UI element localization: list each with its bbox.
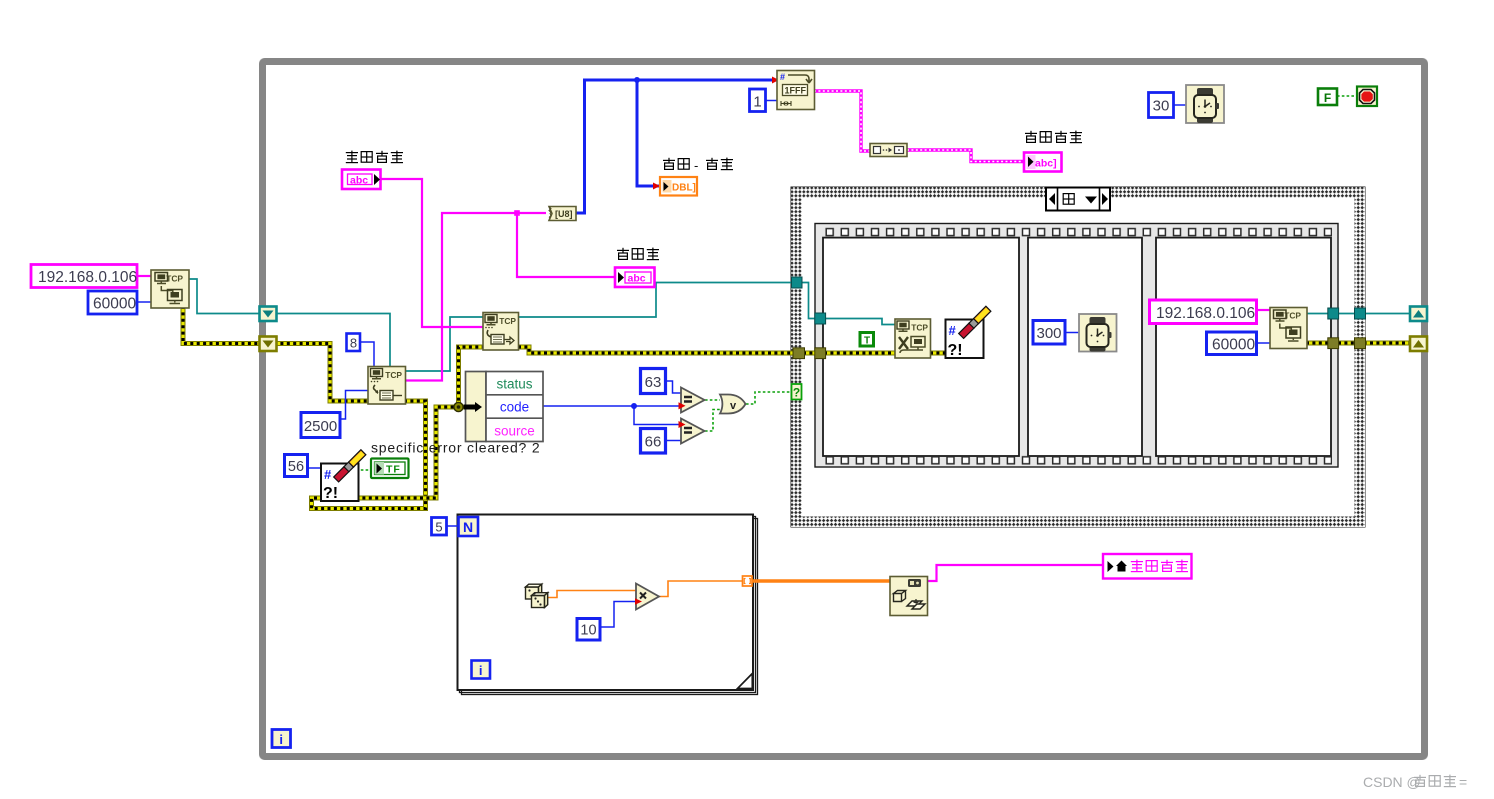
svg-text:2500: 2500 [304,418,337,435]
components layer 3 [432,300,1468,790]
stop button terminal [1357,87,1377,107]
numeric constant 63 [641,369,666,394]
while loop border [260,59,1427,759]
numeric constant 1 [750,89,766,112]
svg-text:#: # [949,323,957,338]
unbundle by name node (status/code/source) [464,372,543,442]
svg-text:300: 300 [1036,325,1061,342]
svg-text:[U8]: [U8] [555,209,573,219]
numeric constant 56 [285,455,308,477]
wire: blue scalar 1 constant to hex node [766,100,777,102]
string indicator (abc) [615,268,655,288]
numeric constant 10 [577,619,600,641]
Flatten To String node [890,577,928,616]
wire: blue 5 to For loop N [447,525,460,527]
wire: error cluster TCP Open 2 out to sequence right tunnel, case tunnel, right shift register [1306,341,1412,346]
svg-text:60000: 60000 [93,296,136,313]
wire: orange multiply out to loop tunnel [658,581,742,597]
wire: teal TCP Open 2 out to tunnels and right shift register [1306,313,1412,315]
wire: error cluster TCP Write out to case structure left tunnel [518,347,797,353]
svg-text:-: - [694,158,698,173]
wire: byte array blue from String-to-Byte-Array up and right to hex node [576,80,777,213]
wire: error cluster from TCP Open (left) down to left shift register [183,306,262,344]
TCP Read node [368,367,406,405]
array-numeric indicator [DBL] [660,177,697,196]
left shift register (teal, down arrow) [260,307,277,322]
wire: blue scalar 300 to wait node 2 [1065,332,1079,334]
svg-text:66: 66 [645,434,662,451]
random number dice node [526,584,548,607]
boolean indicator TF (specific error cleared? 2) [371,459,409,479]
wire: error cluster sequence tunnel to TCP Close [824,351,895,356]
svg-text:i: i [279,732,283,747]
tunnel: teal on sequence left border [815,313,826,324]
boolean constant F [1318,89,1337,106]
for loop output tunnel (array) [743,576,753,586]
svg-text:1: 1 [753,94,761,111]
right shift register (error, up arrow) [1410,337,1427,352]
coercion dot red at hex node input [772,77,779,84]
wire: error cluster from left shift register to TCP Read error in [274,344,368,402]
svg-text:F: F [1324,91,1331,105]
tunnel: teal on case right border [1355,308,1366,319]
wire: orange array from For loop tunnel to Flatten To String [750,579,890,582]
svg-text:8: 8 [350,336,357,351]
svg-text:192.168.0.106: 192.168.0.106 [1156,305,1255,322]
svg-text:T: T [864,336,870,347]
numeric constant 5 (for loop) [432,518,447,536]
svg-text:63: 63 [645,374,662,391]
boolean constant T (frame 1) [859,331,876,348]
tunnel: teal on case left border [792,277,803,288]
send-data string control label [346,151,403,163]
svg-text:code: code [500,400,529,415]
svg-text:DBL]: DBL] [672,183,696,194]
String To Byte Array node [U8] [549,207,576,221]
svg-text:TCP: TCP [911,323,928,333]
wire: string pink from send-data control down to TCP Write input [380,179,483,327]
wire: teal inside case from tunnel down to sequence tunnel [801,283,820,319]
svg-text:abc]: abc] [1035,158,1057,170]
coercion dot red at multiply input [635,598,642,605]
svg-text:TCP: TCP [1284,311,1301,321]
wire: blue scalar 30 to wait node [1174,104,1186,106]
wire: orange dice to multiply [548,591,636,598]
for loop frame with stacked shadow [458,515,758,695]
svg-text:30: 30 [1153,98,1170,115]
wire: blue branch down to array-numeric indicator [637,80,660,186]
wire: teal sequence tunnel to TCP Close [824,319,895,325]
right shift register (teal, up arrow) [1410,307,1427,322]
receive-data indicator label [1025,131,1082,143]
TCP Write node [483,313,519,351]
flat sequence structure (film strip) [815,224,1338,468]
Or gate node [720,395,746,414]
Clear Errors VI 2 (frame 1) [946,306,991,359]
svg-text:192.168.0.106: 192.168.0.106 [38,269,137,286]
wire: blue scalar 60000 to TCP Open (left) [138,301,151,303]
svg-text:#: # [780,72,785,82]
numeric constant 60000 (frame 3) [1207,332,1257,355]
wire: string pink TCP Read data out up to String-to-Byte-Array and string indicator [404,213,546,381]
numeric constant 300 (frame 2) [1033,321,1065,345]
svg-text:status: status [496,377,532,392]
svg-text:5: 5 [435,520,442,535]
wire: blue scalar 60000 #2 to TCP Open 2 [1257,342,1270,344]
equals node 1 [681,388,705,413]
nodes layer [260,277,1428,748]
svg-text:1FFF: 1FFF [785,86,807,96]
wire: TCP connection refnum teal, TCP Open to left shift register [189,279,262,314]
tunnel: error on sequence right border [1328,338,1339,349]
wire: string pink Flatten To String to send-data local variable [927,565,1103,581]
case selector label (true) [1046,188,1110,211]
tunnel: error on case right border [1355,338,1366,349]
receive-data indicator [abc] [1024,153,1062,172]
tunnel: case selector input question mark [792,384,802,400]
components layer 2 [285,313,746,503]
svg-text:TCP: TCP [166,274,183,284]
watermark CSDN [1363,774,1467,790]
svg-text:56: 56 [288,459,304,475]
TCP Open Connection node (frame 3) [1270,308,1307,349]
Number To Hex String node (1FFF) [777,71,815,110]
components layer [31,71,1377,315]
for loop iteration terminal i [472,661,491,679]
wire: pink squiggle IP constant 2 to TCP Open 2 (frame 3) [1257,309,1270,311]
svg-text:60000: 60000 [1212,337,1255,354]
wire: blue 56 to Clear Errors 1 [308,467,321,469]
string indicator label (zifuchuan) [617,248,659,260]
numeric constant 66 [641,429,666,454]
svg-text:TF: TF [386,464,401,476]
equals node 2 [681,419,705,444]
wire: error cluster case tunnel to sequence tunnel [803,351,820,356]
case structure border (checkered band) [791,187,1365,527]
TCP Close Connection node (frame 1) [895,319,931,358]
wire: error cluster TCP Read out, loop down to Clear Errors 1 input [312,401,426,509]
numeric constant 8 [347,334,361,352]
numeric constant 30 [1149,93,1174,118]
svg-text:=: = [1459,774,1467,790]
string constant 192.168.0.106 (left) [31,265,137,288]
wire: blue 10 to multiply [600,602,636,628]
svg-text:?!: ?! [323,485,338,502]
tunnel: error on sequence left border [815,348,826,359]
wire: blue 63 to equals 1 [666,381,681,393]
left shift register (error, down arrow) [260,337,277,352]
svg-text:#: # [324,467,332,482]
send-data local variable [1103,554,1192,579]
wire: pink squiggle IP constant to TCP Open (left) [137,275,151,277]
Wait ms node (frame 2) [1079,314,1117,352]
svg-text:CSDN @: CSDN @ [1363,774,1421,790]
wire: teal TCP Write out to case structure tunnel [518,283,796,318]
svg-text:i: i [479,663,483,678]
svg-text:abc: abc [350,175,368,187]
svg-text:abc: abc [628,273,646,285]
string constant 192.168.0.106 (frame 3) [1150,300,1257,324]
tunnel: error on case left border [793,348,805,359]
wire: blue code value from unbundle to equals nodes [543,405,681,407]
junction: error wire dot at unbundle input [454,402,463,411]
wire: error cluster TCP Close to Clear Errors 2 [930,351,945,356]
tunnel: teal on sequence right border [1328,308,1339,319]
multiply node [636,584,659,610]
svg-text:source: source [494,424,535,439]
send-data string control (abc) [342,170,381,190]
svg-text:10: 10 [580,623,596,639]
svg-text:TCP: TCP [499,316,516,326]
wire: teal TCP Read out up to TCP Write in [404,317,483,371]
wire: blue 66 to equals 2 [666,440,681,442]
Clear Errors VI 1 [321,450,366,502]
wire: error cluster branch from junction up to TCP Write error in [459,347,484,407]
coercion dot red at array-numeric indicator [653,183,660,190]
wire: green dotted Clear Errors 1 to TF indicator [356,469,371,471]
wire: green dotted equals 2 to Or gate [705,410,720,432]
Wait ms node (top) [1186,85,1224,123]
svg-text:?!: ?! [948,342,963,359]
Concatenate Strings small node [870,144,907,157]
wire: green dotted Or output to case selector tunnel [746,392,792,404]
wire: green dotted equals 1 to Or gate [705,399,720,401]
svg-text:?: ? [793,386,800,400]
numeric constant 60000 (left) [88,291,137,314]
while loop iteration terminal i [272,730,291,748]
for loop page curl corner [738,674,753,689]
wire: blue 2500 constant to TCP Read [341,391,368,420]
wire: error cluster Clear Errors 1 out up to junction, into unbundle [356,407,465,498]
svg-text:TCP: TCP [385,370,402,380]
svg-text:v: v [730,400,737,412]
wire: string-array circles from hex node to concat node [814,91,870,151]
coercion dots red at equals inputs [679,402,686,409]
array-numeric indicator label [663,158,733,173]
TCP Open Connection node (left) [151,270,189,308]
wires layer [137,77,1412,628]
wire: green dotted F constant to stop button [1337,95,1357,97]
numeric constant 2500 [301,413,340,438]
svg-text:N: N [463,519,473,535]
wire: teal from left shift register to TCP Read top [274,314,390,368]
wire: blue 8 constant to TCP Read top [360,342,374,367]
for loop count terminal N [459,517,479,536]
wire: string-array circles from concat node to receive-data indicator [907,150,1024,162]
